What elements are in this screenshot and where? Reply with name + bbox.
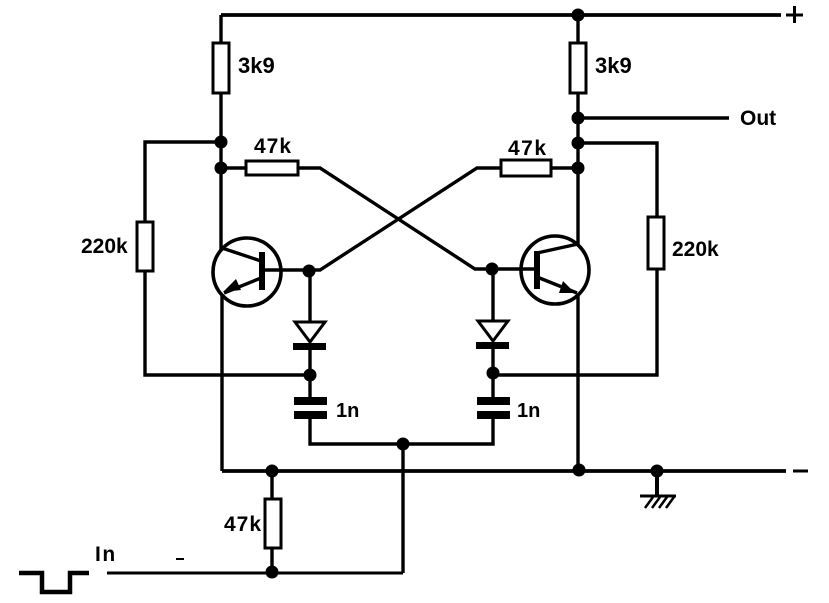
svg-text:1n: 1n [517,400,540,422]
svg-text:47k: 47k [224,513,262,536]
svg-text:3k9: 3k9 [238,53,275,78]
svg-text:47k: 47k [508,137,548,160]
svg-text:In: In [95,543,117,566]
svg-text:220k: 220k [672,238,719,261]
svg-text:Out: Out [740,107,776,130]
svg-text:3k9: 3k9 [595,53,632,78]
svg-text:220k: 220k [81,235,128,258]
svg-text:47k: 47k [254,135,292,158]
svg-text:1n: 1n [336,400,359,422]
